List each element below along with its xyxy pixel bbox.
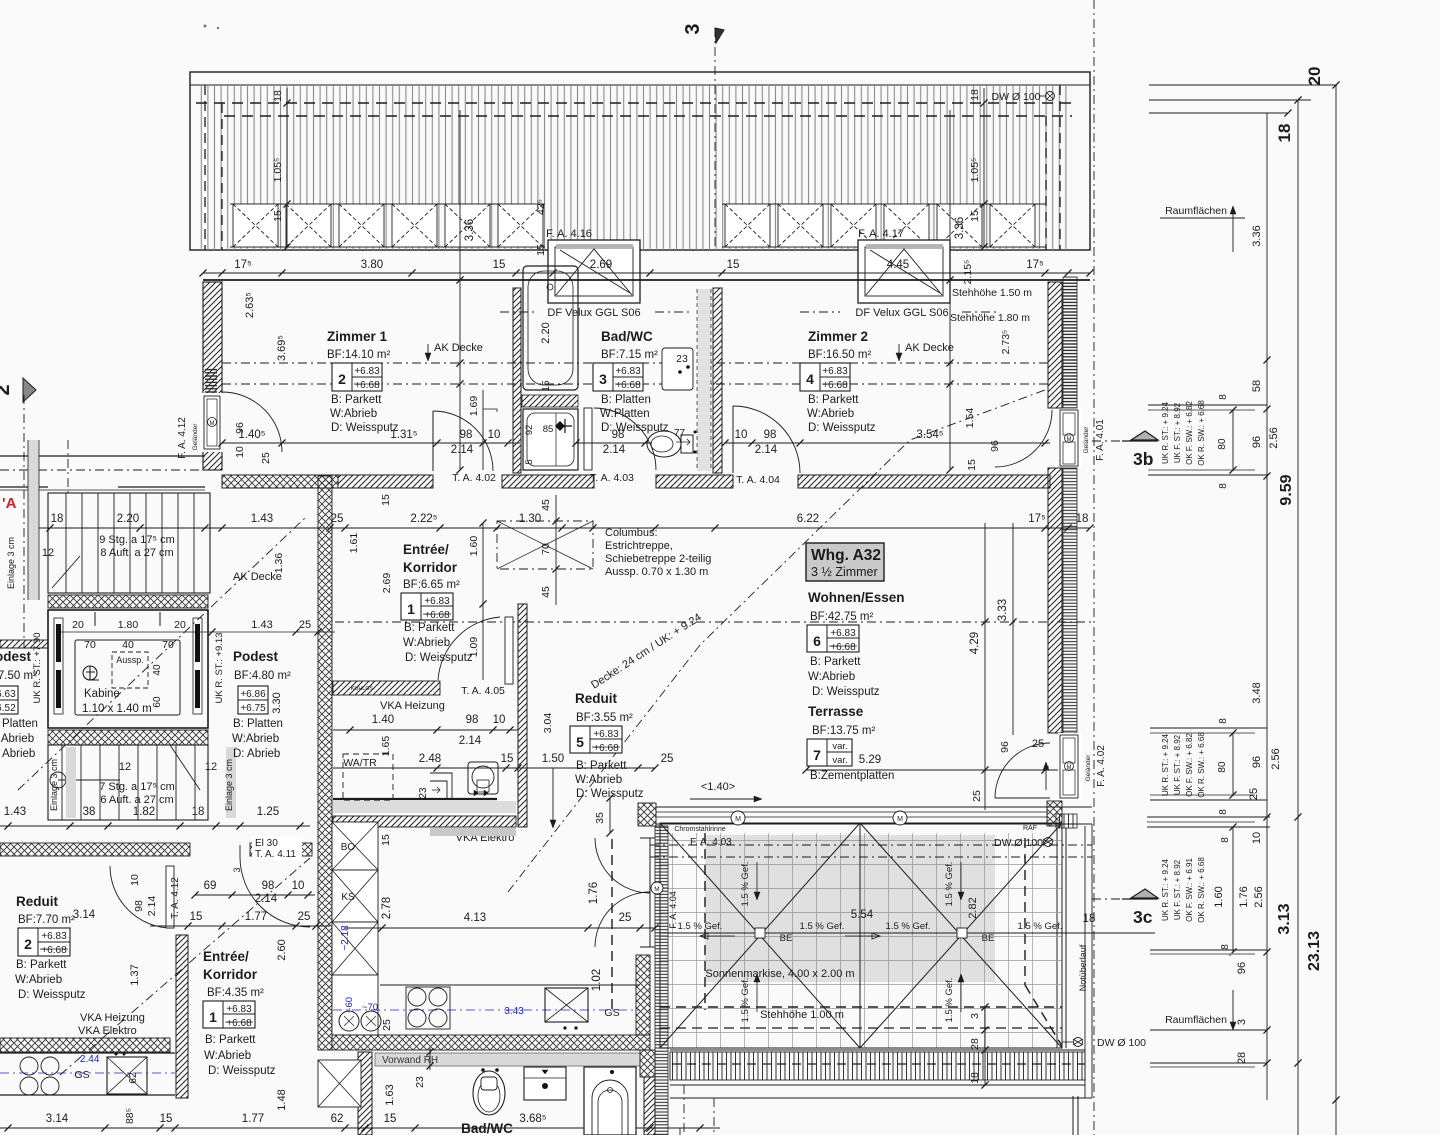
svg-text:20: 20 [72,619,84,631]
svg-text:Bad/WC: Bad/WC [461,1121,513,1135]
terrace east band [1047,801,1062,826]
svg-text:9 Stg. a 17⁵ cm: 9 Stg. a 17⁵ cm [99,534,175,546]
svg-text:15: 15 [501,753,514,765]
svg-text:1.5 % Gef.: 1.5 % Gef. [1018,921,1063,932]
door arc Zimmer 2 east [995,410,1052,467]
svg-text:2.78: 2.78 [381,897,393,919]
svg-text:2.73⁵: 2.73⁵ [1000,330,1012,355]
room tag 2 left flat [18,928,70,956]
svg-text:1.63: 1.63 [384,1084,396,1105]
svg-text:B: Parkett: B: Parkett [404,622,455,634]
svg-text:+6.68: +6.68 [354,380,380,391]
svg-text:5.29: 5.29 [859,754,881,766]
svg-text:18: 18 [51,513,64,525]
svg-text:BF:7.50 m²: BF:7.50 m² [0,670,37,682]
svg-text:60: 60 [152,696,163,708]
svg-text:M: M [1067,765,1072,771]
svg-text:+6.52: +6.52 [0,703,16,714]
svg-text:10: 10 [1251,832,1263,844]
svg-text:62: 62 [331,1113,344,1125]
svg-text:M: M [735,816,741,823]
svg-text:2.14: 2.14 [459,735,482,747]
svg-text:KS: KS [341,892,355,903]
lift shaft [48,610,208,728]
east wall window band ladder [1063,277,1077,408]
svg-text:2.56: 2.56 [1268,427,1280,448]
svg-text:OK F. SW.: + 6.91: OK F. SW.: + 6.91 [1185,858,1194,922]
terrace big X right [860,823,1062,1048]
svg-text:2.14: 2.14 [146,896,158,917]
svg-text:B: Platten: B: Platten [233,718,283,730]
svg-text:Aussp.: Aussp. [116,655,144,665]
svg-text:1.02: 1.02 [591,969,603,991]
svg-text:1.5 % Gef.: 1.5 % Gef. [944,862,955,907]
svg-text:23: 23 [414,1076,426,1088]
svg-text:2.14: 2.14 [451,444,474,456]
svg-text:+6.68: +6.68 [822,380,848,391]
svg-text:+6.68: +6.68 [593,743,619,754]
svg-text:W:Abrieb: W:Abrieb [0,733,34,745]
svg-text:69: 69 [204,880,217,892]
svg-text:B: Parkett: B: Parkett [331,394,382,406]
double sink west [339,1011,359,1031]
svg-text:15: 15 [727,259,740,271]
svg-text:35: 35 [594,812,606,824]
svg-text:28: 28 [969,1038,981,1050]
svg-text:Entrée/: Entrée/ [403,542,449,557]
svg-text:25: 25 [971,790,983,802]
svg-text:1.50: 1.50 [542,753,564,765]
svg-text:F. A. 4.12: F. A. 4.12 [177,417,188,459]
svg-text:Raumflächen: Raumflächen [1165,205,1227,217]
svg-text:12: 12 [205,761,217,773]
svg-text:12: 12 [119,761,131,773]
svg-text:BF:4.80 m²: BF:4.80 m² [234,670,291,682]
roof dim row [203,272,1090,274]
svg-text:F. A. 4.16: F. A. 4.16 [546,228,592,240]
svg-text:18: 18 [969,89,981,101]
svg-text:2.14: 2.14 [755,444,778,456]
svg-text:1.31⁵: 1.31⁵ [390,429,417,441]
triple lines y820 [1147,816,1270,818]
skylight F.A.4.16 [548,240,640,303]
BE drain squares [755,928,765,938]
vertical axis right facade [1093,0,1095,1135]
svg-text:M: M [654,886,659,893]
svg-text:3 ½ Zimmer: 3 ½ Zimmer [811,565,878,579]
svg-text:2.20: 2.20 [117,513,139,525]
dim 23 Vorwand [429,1048,431,1070]
svg-text:2.22⁵: 2.22⁵ [410,513,437,525]
wall band below VKA room [333,816,516,827]
svg-text:Kabine: Kabine [84,688,120,700]
svg-text:28: 28 [1236,1052,1248,1064]
svg-text:M: M [897,816,903,823]
svg-text:+6.83: +6.83 [41,931,67,942]
section 3 line bottom [713,1098,715,1135]
svg-text:3.48: 3.48 [1251,682,1263,703]
svg-text:25: 25 [299,619,311,631]
gray strip Einlage upper [28,440,39,600]
svg-text:2: 2 [24,936,32,952]
svg-text:1.09: 1.09 [468,637,480,658]
svg-text:98: 98 [460,429,473,441]
awning dashed outline [704,833,706,1010]
svg-text:3.36: 3.36 [1251,225,1263,246]
svg-text:Einlage 3 cm: Einlage 3 cm [224,759,234,811]
lift door mechanisms [54,618,63,714]
svg-text:70: 70 [84,639,96,651]
svg-text:KUHLGS: KUHLGS [351,686,374,692]
room tag 4 [800,363,850,391]
shelf column BO/KS [332,822,378,870]
svg-text:5: 5 [524,459,535,464]
room tag 5 [570,726,622,753]
svg-text:3c: 3c [1133,907,1153,927]
awning gray area [705,835,995,982]
north wall line under roof [203,279,1090,281]
roof cross-braced panel band right [722,203,1046,205]
svg-text:1.5 % Gef.: 1.5 % Gef. [740,862,751,907]
svg-text:Schiebetreppe 2-teilig: Schiebetreppe 2-teilig [605,553,711,565]
wall Entree/Wohnen vertical [518,604,527,827]
svg-text:DW Ø 100: DW Ø 100 [991,91,1040,103]
right column main verticals [1266,113,1268,1100]
svg-text:D: Abrieb: D: Abrieb [233,748,280,760]
roof dim chain right [983,88,985,247]
room tag 7 [807,739,852,766]
svg-text:T. A. 4.02: T. A. 4.02 [452,472,496,484]
svg-text:OK F. SW.: + 6.82: OK F. SW.: + 6.82 [1185,401,1194,465]
svg-text:2.63⁵: 2.63⁵ [244,292,256,318]
dim row y768 [333,767,655,769]
door arc Zimmer 1 [432,411,434,471]
dim 1.60/1.09 vertical [482,523,484,680]
svg-text:1.76: 1.76 [1238,886,1250,907]
svg-text:1.80: 1.80 [118,619,139,631]
svg-text:Zimmer 1: Zimmer 1 [327,329,388,344]
svg-text:BF:3.55 m²: BF:3.55 m² [576,712,633,724]
roof cross-braced panel band left [230,203,545,205]
svg-text:T. A. 4.11: T. A. 4.11 [255,849,296,860]
svg-text:'A: 'A [2,495,17,512]
svg-text:2.56: 2.56 [1270,748,1282,769]
svg-text:88⁵: 88⁵ [124,1108,136,1124]
window F.A.4.01 east [1058,408,1082,468]
svg-text:70: 70 [540,543,552,555]
svg-text:+6.83: +6.83 [615,366,641,377]
wheelchair symbol [83,666,97,680]
svg-text:77: 77 [674,428,686,439]
svg-text:B:Zementplatten: B:Zementplatten [810,770,894,782]
svg-text:Bad/WC: Bad/WC [601,329,653,344]
entrance door arc top-left [222,392,282,452]
svg-text:+6.68: +6.68 [830,642,856,653]
svg-text:DF Velux GGL S06: DF Velux GGL S06 [855,307,948,319]
dim row 1.40/2.14 [333,729,518,731]
dim 5.29 row [806,769,1068,771]
svg-text:38: 38 [83,806,96,818]
svg-text:3: 3 [232,867,242,872]
svg-text:D: Abrieb: D: Abrieb [0,748,35,760]
svg-text:80: 80 [1217,438,1228,450]
terrace floor grid [660,833,1062,1048]
svg-text:B: Parkett: B: Parkett [810,656,861,668]
room tag 3 [593,363,643,391]
svg-text:20: 20 [1305,67,1324,86]
svg-text:D: Weissputz: D: Weissputz [331,422,399,434]
svg-text:BO: BO [341,842,356,853]
3c dims [1232,827,1234,952]
diagonal reference line living [508,390,1045,892]
svg-text:15: 15 [272,210,284,222]
svg-text:Reduit: Reduit [16,894,59,909]
wall band T.A.4.11 [0,843,190,856]
svg-text:T. A. 4.05: T. A. 4.05 [461,685,505,697]
svg-text:M: M [1067,437,1072,443]
svg-text:1: 1 [209,1009,217,1025]
svg-text:70: 70 [162,639,174,651]
counter piece [430,773,452,799]
svg-text:DW Ø 100: DW Ø 100 [994,837,1043,849]
svg-text:DF Velux GGL S06: DF Velux GGL S06 [547,307,640,319]
svg-text:96: 96 [1251,756,1263,768]
svg-text:B: Parkett: B: Parkett [16,959,67,971]
svg-text:B: Platten: B: Platten [0,718,38,730]
roof dashed eave lines [196,102,1072,104]
room vertical dim 3.36 left [459,110,461,470]
svg-text:var.: var. [832,755,847,766]
svg-text:3.04: 3.04 [542,713,554,734]
svg-text:2.48: 2.48 [419,753,441,765]
svg-text:23.13: 23.13 [1306,931,1323,971]
svg-text:45: 45 [540,499,552,511]
small dots top left [204,25,207,28]
svg-text:W:Abrieb: W:Abrieb [403,637,450,649]
svg-text:<1.40>: <1.40> [701,781,735,793]
svg-text:W:Abrieb: W:Abrieb [575,774,622,786]
skylight F.A.4.17 [858,240,950,303]
wall right of Bad/WC [713,288,722,473]
svg-text:42⁵: 42⁵ [535,199,547,215]
svg-text:Korridor: Korridor [403,560,458,575]
svg-text:W:Abrieb: W:Abrieb [807,408,854,420]
svg-text:BF:16.50 m²: BF:16.50 m² [808,349,871,361]
stair run lower [48,745,208,820]
washbasin Bad/WC [523,409,578,470]
WC toilet [647,431,681,457]
Columbus attic ladder [497,521,593,569]
svg-text:DW Ø 100: DW Ø 100 [1097,1037,1146,1049]
svg-text:BF:7.70 m²: BF:7.70 m² [18,914,75,926]
shaft between Bad and Zimmer2 [697,289,711,471]
svg-text:OK F. SW.: + 6.82: OK F. SW.: + 6.82 [1185,733,1194,797]
room tag 6 [807,625,859,652]
svg-text:98: 98 [262,880,275,892]
svg-text:3.33: 3.33 [997,599,1009,621]
VKA Heizung wall band [333,681,440,695]
svg-text:15: 15 [380,834,392,846]
svg-text:Columbus:: Columbus: [605,527,658,539]
door arc Reduit left [110,866,172,928]
hatch strip below tub [522,395,578,407]
svg-text:1.5 % Gef.: 1.5 % Gef. [740,978,751,1023]
svg-text:Reduit: Reduit [575,691,618,706]
svg-text:UK R. ST.: + 9.24: UK R. ST.: + 9.24 [1161,858,1170,921]
svg-text:F. A. 4.01: F. A. 4.01 [1095,419,1106,461]
svg-text:·2.44: ·2.44 [77,1054,100,1065]
dim row Zimmer2 y443 [725,442,1050,444]
svg-text:8: 8 [1218,483,1229,489]
svg-text:OK R. SW.: + 6.68: OK R. SW.: + 6.68 [1197,857,1206,923]
svg-text:Podest: Podest [233,649,279,664]
svg-text:8: 8 [1220,837,1231,843]
svg-text:T. A. 4.12: T. A. 4.12 [170,877,181,919]
guest WC basin [468,762,498,794]
svg-text:3.14: 3.14 [46,1113,69,1125]
svg-text:1.43: 1.43 [251,513,273,525]
svg-text:96: 96 [989,440,1001,452]
svg-text:1.82: 1.82 [133,806,155,818]
terrace drain DW bottom [1074,1038,1083,1047]
stair dim row y820 [0,825,310,827]
svg-text:5.54: 5.54 [851,909,874,921]
svg-text:85: 85 [543,424,554,435]
svg-text:7 Stg. a 17⁵ cm: 7 Stg. a 17⁵ cm [99,781,175,793]
svg-text:D: Weissputz: D: Weissputz [812,686,880,698]
svg-text:3.54⁵: 3.54⁵ [916,429,943,441]
svg-text:3.14: 3.14 [73,909,96,921]
svg-text:AK Decke: AK Decke [905,342,954,354]
svg-text:Wohnen/Essen: Wohnen/Essen [808,590,905,605]
door T.A.4.05 [505,617,513,684]
svg-text:VKA Heizung: VKA Heizung [380,700,445,712]
svg-text:1.54: 1.54 [964,408,976,429]
svg-text:1.69: 1.69 [468,396,480,417]
door arc Bad/WC [584,408,592,470]
svg-text:18: 18 [1275,124,1294,143]
svg-text:F. A. 4.17: F. A. 4.17 [858,228,904,240]
svg-text:D: Weissputz: D: Weissputz [208,1065,276,1077]
svg-text:23: 23 [676,353,688,365]
svg-text:UK F. ST.: + 8.92: UK F. ST.: + 8.92 [1173,402,1182,463]
room vertical dim 3.36 right [949,110,951,470]
dim row Bad y443 [576,442,652,444]
svg-text:4: 4 [806,371,814,387]
svg-text:+6.68: +6.68 [41,945,67,956]
svg-text:1.5 % Gef.: 1.5 % Gef. [800,921,845,932]
lower flat bath walls [358,1052,372,1135]
south wall kitchen crosshatch [332,1035,650,1050]
crosshatch band above lift [48,595,208,608]
svg-text:1.60: 1.60 [468,536,480,557]
room tag 2 [332,363,382,391]
dims terrace right chain [984,1007,986,1085]
svg-text:2.15⁵: 2.15⁵ [962,260,974,285]
svg-text:98: 98 [133,900,145,912]
svg-text:1.60: 1.60 [1213,886,1225,907]
svg-text:15: 15 [541,380,552,392]
svg-text:3.69⁵: 3.69⁵ [276,335,288,361]
window F.A.4.02 east [1058,733,1082,800]
svg-text:5: 5 [576,734,584,750]
shaft X lower left [318,1060,361,1107]
dim row y528 [35,527,1090,529]
svg-text:10: 10 [493,714,506,726]
svg-text:Sonnenmarkise, 4.00 x 2.00 m: Sonnenmarkise, 4.00 x 2.00 m [705,968,854,980]
svg-text:8: 8 [1218,394,1229,400]
svg-text:BF:7.15 m²: BF:7.15 m² [601,349,658,361]
svg-text:3.36: 3.36 [954,217,966,239]
svg-text:1.5 % Gef.: 1.5 % Gef. [678,921,723,932]
lower flat bathtub [584,1067,636,1135]
svg-text:+6.83: +6.83 [822,366,848,377]
svg-text:+6.83: +6.83 [593,729,619,740]
roof edge dashed line inside living [611,839,613,1012]
svg-text:15: 15 [160,1113,173,1125]
crosshatch band below lift [48,730,208,745]
double door to terrace west [649,838,651,947]
svg-text:Geländer: Geländer [192,423,199,451]
stair run upper [48,493,210,593]
washer dryer WA/TR [343,754,393,801]
svg-text:+6.83: +6.83 [226,1004,252,1015]
svg-text:17⁵: 17⁵ [1028,513,1046,525]
svg-text:3: 3 [599,371,607,387]
svg-text:18: 18 [969,1072,981,1084]
svg-text:F. A. 4.03: F. A. 4.03 [690,837,732,848]
svg-text:2.82: 2.82 [967,897,979,918]
terrace big X left [660,823,860,1048]
svg-text:3.13: 3.13 [1276,903,1293,934]
Vorwand band [375,1053,640,1066]
svg-text:1.25: 1.25 [257,806,279,818]
svg-text:40: 40 [122,639,134,651]
svg-text:+6.68: +6.68 [615,380,641,391]
terrace south railing [670,1049,1085,1051]
bottom dim row left [0,1127,720,1129]
svg-text:80: 80 [1217,761,1228,773]
dim 35 [609,798,611,833]
svg-text:2.14: 2.14 [603,444,626,456]
right column top ref lines [1149,84,1337,86]
svg-text:10: 10 [488,429,501,441]
svg-text:25: 25 [619,912,632,924]
svg-text:15: 15 [380,494,392,506]
3c upper window lines [1150,727,1267,729]
svg-text:T. A. 4.03: T. A. 4.03 [590,472,634,484]
svg-text:B: Parkett: B: Parkett [808,394,859,406]
svg-text:96: 96 [234,422,246,434]
terrace border [660,823,1062,1048]
svg-text:6.22: 6.22 [797,513,819,525]
svg-text:15: 15 [384,1113,397,1125]
living axis [335,621,1092,623]
terrace axis dashdot lines [650,844,1092,846]
Whg A32 box [806,543,884,581]
svg-text:25: 25 [381,1019,393,1031]
svg-text:98: 98 [612,429,625,441]
left corridor lines [0,455,205,457]
svg-text:T. A. 4.04: T. A. 4.04 [736,474,780,486]
svg-text:Zimmer 2: Zimmer 2 [808,329,868,344]
svg-text:+6.83: +6.83 [424,596,450,607]
svg-text:3: 3 [1236,1019,1248,1025]
svg-text:F. A. 4.04: F. A. 4.04 [668,891,678,929]
svg-text:8: 8 [1218,809,1229,815]
svg-text:23: 23 [418,787,429,799]
svg-text:10: 10 [735,429,748,441]
